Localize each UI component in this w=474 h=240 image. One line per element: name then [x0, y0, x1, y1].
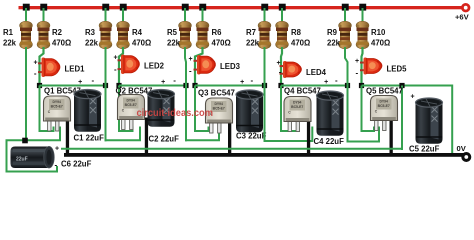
wire rail to R9 [344, 8, 346, 23]
svg-text:-: - [356, 69, 359, 78]
svg-text:R7: R7 [246, 28, 256, 37]
svg-text:22k: 22k [85, 39, 99, 48]
wire rail to R10 [362, 8, 364, 23]
capacitor C3 22uF [236, 90, 263, 132]
label LED3 polarity [189, 56, 193, 76]
wire R5 down to base bracket [185, 47, 186, 141]
svg-text:BC5-E7: BC5-E7 [291, 105, 303, 109]
label LED4 [306, 68, 327, 77]
LED5 [360, 58, 382, 75]
svg-text:C2 22uF: C2 22uF [149, 135, 180, 144]
resistor R1 22k [20, 21, 33, 49]
node R8 rail junction [279, 4, 286, 11]
node R9 rail junction [342, 4, 349, 11]
label C6 polarity [55, 146, 60, 170]
wire rail to R4 [122, 8, 124, 23]
svg-text:LED3: LED3 [220, 62, 241, 71]
wire rail to R1 [25, 8, 27, 23]
wire rail to R7 [264, 8, 266, 23]
svg-text:-: - [251, 76, 254, 85]
label LED1 [65, 65, 86, 74]
wire C5 positive drop [401, 86, 403, 151]
+6V label [455, 13, 470, 22]
wire R10 to LED5 [362, 47, 363, 86]
svg-text:BC5-E7: BC5-E7 [378, 104, 390, 108]
wire collector Q1 coupling to stage 2 [40, 85, 106, 87]
svg-text:470Ω: 470Ω [212, 39, 231, 48]
svg-text:22k: 22k [246, 39, 260, 48]
wire emitter Q2 to 0V [145, 118, 148, 156]
label R8 470 [291, 28, 310, 48]
node R6 rail junction [199, 4, 206, 11]
0V label [457, 144, 467, 153]
node LED5 cathode junction [359, 83, 364, 88]
wire C6 negative loop [7, 140, 58, 171]
label C5 polarity [411, 94, 415, 101]
wire output drop to 0V rail [451, 85, 453, 156]
svg-text:+: + [34, 60, 38, 67]
wire rail to R6 [202, 8, 204, 23]
wire R3 down to base bracket [105, 47, 107, 141]
svg-text:22k: 22k [3, 39, 17, 48]
wire emitter Q5 to 0V [390, 119, 393, 156]
label R9 22k [327, 28, 341, 48]
label R3 22k [85, 28, 99, 48]
svg-text:+6V: +6V [455, 13, 470, 22]
label LED2 polarity [114, 55, 118, 75]
label LED3 [220, 62, 241, 71]
label R2 470 [52, 28, 71, 48]
LED2 [118, 55, 140, 75]
svg-text:-: - [92, 76, 95, 85]
label C2 polarity [161, 76, 176, 86]
label C3 polarity [240, 76, 253, 86]
svg-text:LED1: LED1 [65, 65, 86, 74]
wire collector bracket Q4 [281, 86, 299, 132]
label C5 22uF [409, 145, 440, 154]
svg-text:470Ω: 470Ω [291, 39, 310, 48]
svg-text:22uF: 22uF [16, 157, 28, 163]
node coupling junction stage 2 [103, 83, 108, 88]
capacitor C6 22uF [11, 146, 55, 168]
svg-text:circuit-ideas.com: circuit-ideas.com [137, 107, 214, 119]
LED3 [194, 55, 216, 75]
svg-text:C4 22uF: C4 22uF [314, 137, 345, 146]
node LED4 cathode junction [278, 83, 283, 88]
resistor R8 470 ohm [276, 21, 289, 49]
wire C6 positive bus [61, 148, 402, 150]
label R6 470 [212, 28, 231, 48]
wire collector Q5 to output [362, 85, 453, 87]
capacitor C4 22uF [317, 91, 344, 136]
wire rail to R8 [281, 8, 283, 23]
label C1 22uF [74, 134, 105, 143]
node R2 rail junction [40, 4, 47, 11]
svg-text:-: - [189, 67, 192, 76]
wire rail to R5 [184, 8, 186, 23]
svg-text:LED5: LED5 [387, 65, 408, 74]
wire collector bracket Q3 [195, 86, 209, 132]
capacitor C2 22uF [148, 90, 175, 127]
svg-text:22k: 22k [327, 39, 341, 48]
wire rail to R2 [43, 8, 45, 23]
svg-text:+: + [411, 94, 415, 101]
resistor R5 22k [179, 21, 192, 49]
wire R9 down to base bracket [345, 47, 348, 143]
wire R1 down to base bracket [25, 47, 27, 141]
svg-text:+: + [324, 79, 328, 86]
node R1 rail junction [23, 4, 30, 11]
resistor R3 22k [99, 21, 112, 49]
label LED1 polarity [34, 60, 38, 79]
+6V supply rail [19, 6, 462, 9]
wire base bracket Q4 [264, 127, 313, 142]
svg-text:Q2 BC547: Q2 BC547 [116, 87, 153, 96]
resistor R2 470 ohm [37, 21, 50, 49]
svg-text:Q3 BC547: Q3 BC547 [198, 89, 235, 98]
svg-text:Q4 BC547: Q4 BC547 [284, 87, 321, 96]
svg-text:BC5-E7: BC5-E7 [125, 103, 137, 107]
svg-text:22k: 22k [167, 39, 181, 48]
node C6 junction [22, 138, 28, 144]
svg-text:0V: 0V [457, 144, 467, 153]
wire collector Q2 coupling to stage 3 [119, 85, 186, 87]
LED4 [280, 61, 302, 78]
label R4 470 [132, 28, 151, 48]
resistor R9 22k [339, 21, 352, 49]
label C2 22uF [149, 135, 180, 144]
node LED2 cathode junction [116, 83, 121, 88]
transistor Q4 BC547 [284, 97, 311, 132]
node coupling junction stage 3 [183, 83, 188, 88]
svg-text:+: + [277, 60, 281, 67]
wire R6 to LED3 [195, 47, 203, 86]
svg-text:R5: R5 [167, 28, 178, 37]
wire collector Q4 coupling to stage 5 [281, 85, 348, 87]
svg-text:-: - [173, 76, 176, 85]
resistor R6 470 ohm [196, 21, 209, 49]
label R5 22k [167, 28, 181, 48]
label C1 polarity [78, 76, 94, 86]
wire collector bracket Q5 [362, 86, 375, 132]
label R10 470 [371, 28, 390, 48]
wire base bracket Q1 [25, 127, 60, 141]
wire collector Q3 coupling to stage 4 [195, 85, 265, 87]
node R3 rail junction [102, 4, 109, 11]
svg-text:-: - [335, 76, 338, 85]
capacitor C1 22uF [74, 90, 101, 132]
svg-text:+: + [114, 55, 118, 62]
svg-text:C1 22uF: C1 22uF [74, 134, 105, 143]
svg-text:+: + [78, 79, 82, 86]
svg-text:LED4: LED4 [306, 68, 327, 77]
node coupling junction stage 5 [345, 83, 350, 88]
node R5 rail junction [182, 4, 189, 11]
svg-text:470Ω: 470Ω [371, 39, 390, 48]
svg-text:C5 22uF: C5 22uF [409, 145, 440, 154]
svg-text:BC5-E7: BC5-E7 [51, 104, 63, 108]
svg-text:C6 22uF: C6 22uF [61, 160, 92, 169]
svg-text:+: + [355, 58, 359, 65]
svg-text:+: + [189, 56, 193, 63]
wire base bracket Q5 [347, 127, 380, 142]
wire base bracket Q2 [105, 127, 141, 141]
wire R7 down to base bracket [264, 47, 266, 142]
capacitor C5 22uF [416, 98, 443, 144]
wire collector bracket Q1 [40, 86, 54, 132]
svg-text:+: + [240, 79, 244, 86]
label Q1 BC547 [44, 87, 81, 96]
wire base bracket Q3 [185, 127, 219, 141]
0V terminal [461, 152, 471, 162]
wire R8 to LED4 [281, 47, 282, 86]
label Q2 BC547 [116, 87, 153, 96]
label LED4 polarity [277, 60, 282, 77]
node R10 rail junction [359, 4, 366, 11]
watermark [137, 107, 214, 119]
LED1 [38, 58, 60, 78]
label LED5 [387, 65, 408, 74]
label C6 22uF [61, 160, 92, 169]
svg-text:R10: R10 [371, 28, 386, 37]
node coupling junction stage 4 [262, 83, 267, 88]
label LED5 polarity [355, 58, 359, 78]
label Q3 BC547 [198, 89, 235, 98]
transistor Q3 BC547 [206, 98, 233, 133]
label C4 polarity [324, 76, 338, 86]
wire emitter Q3 to 0V [228, 121, 231, 155]
svg-text:Q5 BC547: Q5 BC547 [366, 87, 403, 96]
node LED3 cathode junction [192, 83, 197, 88]
node R4 rail junction [120, 4, 127, 11]
wire emitter Q4 to 0V [307, 120, 310, 156]
transistor Q1 BC547 [44, 96, 71, 131]
svg-text:R4: R4 [132, 28, 143, 37]
svg-text:BC5-E7: BC5-E7 [213, 106, 225, 110]
svg-text:R8: R8 [291, 28, 302, 37]
svg-text:LED2: LED2 [144, 62, 165, 71]
svg-text:+: + [55, 146, 59, 153]
label Q4 BC547 [284, 87, 321, 96]
label C3 22uF [236, 132, 267, 141]
0V ground rail [64, 153, 466, 157]
resistor R4 470 ohm [117, 21, 130, 49]
svg-text:470Ω: 470Ω [132, 39, 151, 48]
label Q5 BC547 [366, 87, 403, 96]
node R7 rail junction [261, 4, 268, 11]
svg-text:-: - [34, 69, 37, 78]
label LED2 [144, 62, 165, 71]
resistor R7 22k [258, 21, 271, 49]
wire rail to R3 [105, 8, 107, 23]
wire collector bracket Q2 [119, 86, 133, 132]
label R7 22k [246, 28, 260, 48]
transistor Q5 BC547 [371, 96, 398, 131]
label R1 22k [3, 28, 17, 48]
svg-text:C3 22uF: C3 22uF [236, 132, 267, 141]
wire emitter Q1 to 0V [66, 119, 69, 155]
svg-text:R6: R6 [212, 28, 223, 37]
resistor R10 470 ohm [356, 21, 369, 49]
svg-text:-: - [114, 65, 117, 74]
svg-text:R1: R1 [3, 28, 14, 37]
svg-text:470Ω: 470Ω [52, 39, 71, 48]
+6V terminal [461, 3, 470, 12]
node LED1 cathode junction [37, 83, 42, 88]
label C4 22uF [314, 137, 345, 146]
wire R4 to LED2 [119, 47, 123, 86]
svg-text:R9: R9 [327, 28, 338, 37]
svg-text:-: - [279, 68, 282, 77]
svg-text:R3: R3 [85, 28, 96, 37]
wire R2 to LED1 [40, 47, 44, 86]
svg-text:-: - [55, 161, 58, 170]
transistor Q2 BC547 [118, 95, 145, 130]
node C5 junction [399, 83, 404, 88]
svg-text:+: + [161, 79, 165, 86]
svg-text:R2: R2 [52, 28, 63, 37]
